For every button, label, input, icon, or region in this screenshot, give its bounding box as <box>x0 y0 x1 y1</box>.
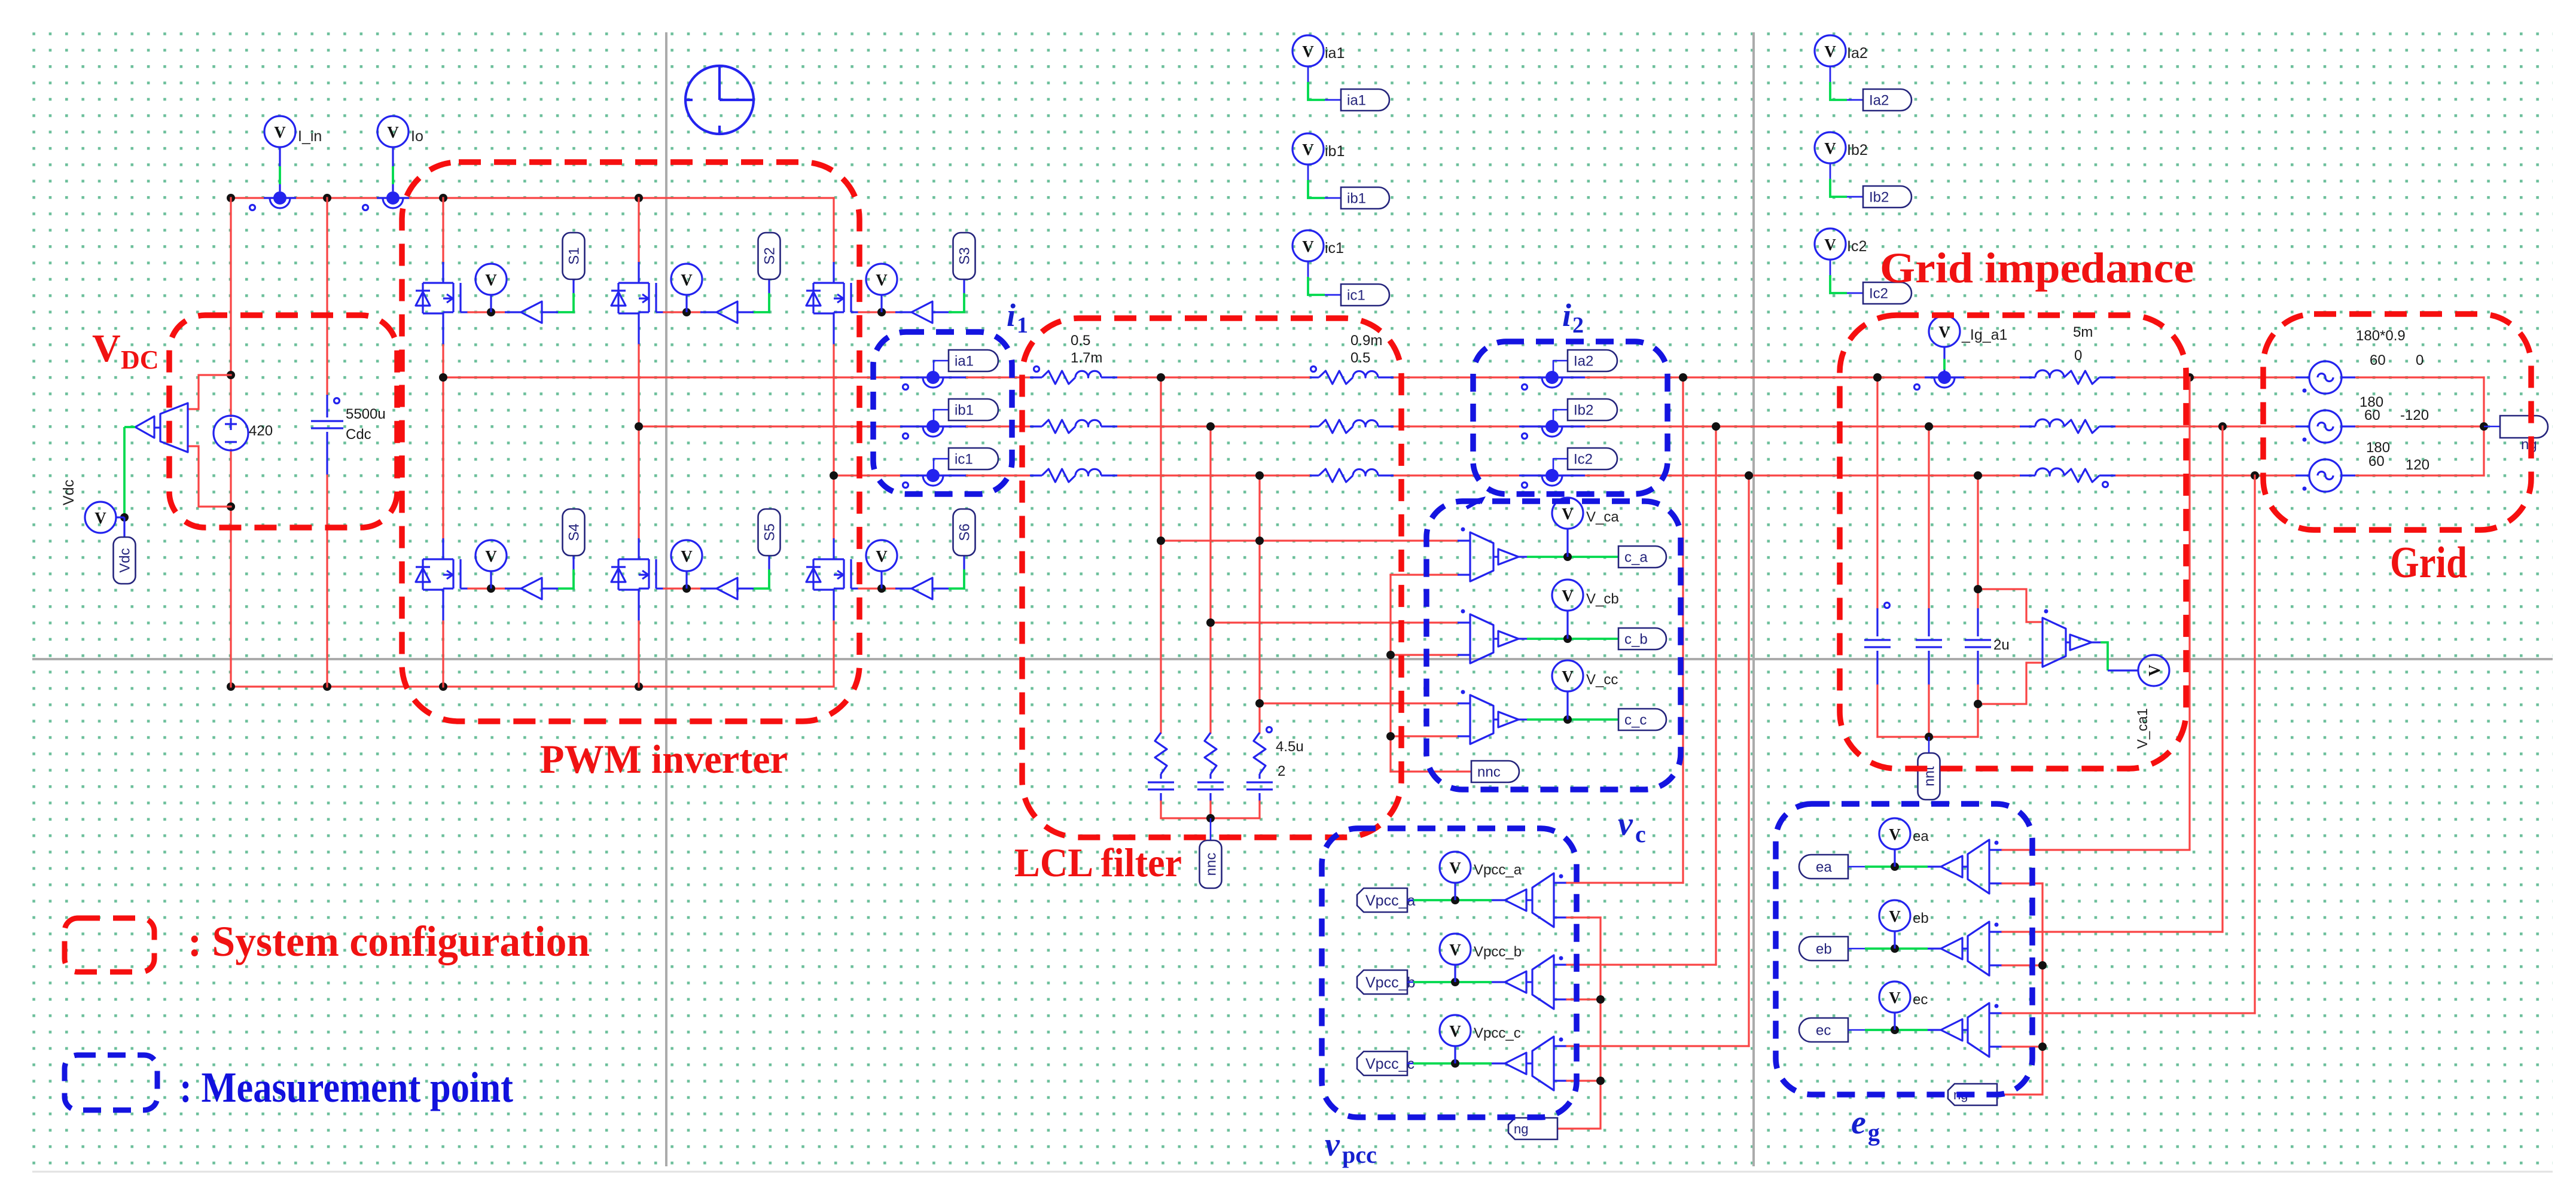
wire drop i2-a <box>1682 377 1684 883</box>
wire ea signal <box>1865 865 1928 868</box>
wire leg source <box>442 312 444 345</box>
svg-text:-120: -120 <box>2400 407 2429 423</box>
svg-text:V: V <box>2145 664 2163 676</box>
voltage source 420 <box>214 416 248 450</box>
buffer triangle ec <box>1928 1029 1941 1031</box>
svg-text:Ia2: Ia2 <box>1574 353 1593 370</box>
svg-text:V: V <box>876 547 888 565</box>
goto tag Ia2 <box>1863 89 1912 111</box>
svg-text:60: 60 <box>2364 407 2380 423</box>
probe V gate S2 <box>685 295 687 312</box>
node cap top <box>1974 471 1982 480</box>
wire v_c minus c <box>1391 735 1458 737</box>
svg-text:c_b: c_b <box>1624 632 1648 648</box>
probe V ib1 <box>1307 164 1309 180</box>
probe V V_ca <box>1566 529 1568 557</box>
wire Vpcc_a out+ <box>1554 882 1567 883</box>
buffer triangle V_cc <box>1498 712 1519 727</box>
buffer triangle Vdc <box>135 416 154 438</box>
wire v_c tap c <box>1260 702 1458 704</box>
wire leg drain <box>442 198 444 262</box>
wire ec out- <box>1989 1045 2002 1047</box>
goto tag Ib2 <box>1863 186 1912 208</box>
node nnc-c <box>1386 732 1395 740</box>
svg-text:Ic2: Ic2 <box>1574 452 1593 468</box>
wire v_c tap a <box>1161 539 1458 541</box>
svg-text:V_ca1: V_ca1 <box>2135 708 2151 749</box>
node tap c <box>1255 699 1264 708</box>
goto tag nnt <box>1928 737 1930 753</box>
probe V ia1 <box>1307 66 1309 82</box>
svg-text:5m: 5m <box>2073 324 2093 340</box>
svg-text:V: V <box>1302 237 1314 255</box>
wire Vpcc_b signal <box>1413 981 1492 983</box>
controlled source Vpcc_a <box>1526 899 1532 901</box>
goto tag Ib2 <box>1553 410 1568 423</box>
node Vpcc_a <box>1451 896 1459 904</box>
probe V gate S4 <box>490 572 492 589</box>
from tag eb <box>1799 937 1848 961</box>
node Vpcc_c <box>1451 1059 1459 1068</box>
svg-text:eb: eb <box>1816 941 1832 958</box>
goto tag ib1 <box>934 410 949 423</box>
goto tag nnc bottom <box>1210 818 1212 840</box>
buffer triangle gate S6 <box>911 578 932 599</box>
svg-text:Vpcc_c: Vpcc_c <box>1365 1056 1414 1072</box>
svg-text:Grid: Grid <box>2390 538 2467 587</box>
svg-text:v: v <box>1618 806 1633 843</box>
svg-text:V_ca: V_ca <box>1586 509 1619 525</box>
page boundary line horizontal <box>32 658 2553 660</box>
voltmeter V_ca <box>1470 532 1493 581</box>
node ea <box>1891 862 1899 871</box>
svg-text:ea: ea <box>1816 859 1832 876</box>
svg-text:V: V <box>94 509 106 527</box>
inductor L2 0.9m/0.5 <box>1310 474 1319 476</box>
wire nnc to tag <box>1391 770 1471 772</box>
wire leg drain <box>442 377 444 538</box>
wire drop i2-b <box>1715 426 1717 965</box>
svg-text:1: 1 <box>1017 313 1028 338</box>
clock symbol <box>685 66 754 134</box>
gate drive wire S4 <box>461 587 468 589</box>
svg-text:ib1: ib1 <box>1347 191 1366 207</box>
goto tag ib1 <box>1341 187 1389 209</box>
svg-text:v: v <box>1325 1126 1340 1163</box>
probe V eb <box>1894 931 1895 949</box>
wire V_cc signal <box>1527 718 1618 721</box>
box LCL filter <box>1022 318 1401 837</box>
transistor S2 MOSFET <box>639 282 649 284</box>
source AC grid B <box>2309 410 2342 443</box>
node nnc-b <box>1386 651 1395 659</box>
wire grid cap bottom bus <box>1877 736 1978 737</box>
goto tag c_a <box>1618 546 1666 568</box>
wire Vpcc_c out- <box>1554 1080 1567 1081</box>
node cap top <box>1873 373 1882 382</box>
wire DC+ top rail <box>231 197 834 199</box>
svg-text:ic1: ic1 <box>955 452 973 468</box>
node ec <box>1891 1026 1899 1034</box>
wire v_c minus a <box>1391 574 1458 575</box>
svg-text:ec: ec <box>1913 992 1928 1008</box>
buffer triangle gate S4 <box>521 578 542 599</box>
svg-text:V: V <box>1889 825 1901 843</box>
node vpcc ng c <box>1596 1077 1605 1085</box>
wire ec signal <box>1865 1029 1928 1031</box>
node cap top <box>1925 422 1933 431</box>
svg-text:V_cb: V_cb <box>1586 591 1619 607</box>
wire Vpcc_c signal <box>1413 1062 1492 1065</box>
voltmeter Vdc <box>160 403 188 452</box>
goto tag S5 <box>758 509 781 556</box>
svg-text:ng: ng <box>1514 1121 1528 1136</box>
svg-text:ib1: ib1 <box>1325 143 1345 160</box>
buffer triangle V_cb <box>1498 631 1519 647</box>
svg-text:Ib2: Ib2 <box>1574 403 1593 419</box>
wire gate signal S3 <box>949 293 964 312</box>
svg-text:V: V <box>1824 42 1836 60</box>
svg-text:nnc: nnc <box>1477 764 1501 781</box>
box v_c <box>1426 501 1681 790</box>
svg-text:V: V <box>1889 989 1901 1007</box>
page boundary line vertical 2 <box>1752 32 1755 1166</box>
goto tag ia1 <box>1341 89 1389 111</box>
controlled source Vpcc_c <box>1526 1062 1532 1064</box>
node shunt top <box>1206 422 1215 431</box>
svg-text:Vpcc_c: Vpcc_c <box>1474 1025 1521 1041</box>
wire v_c minus b <box>1391 654 1458 656</box>
diode antiparallel S4 <box>423 558 443 560</box>
svg-text:Vdc: Vdc <box>117 548 133 572</box>
wire grid cap drop <box>1928 426 1929 608</box>
node Vdc <box>120 513 129 522</box>
svg-text:c_c: c_c <box>1624 712 1647 728</box>
goto tag S6 <box>953 509 975 556</box>
from tag ng eg <box>1948 1084 1997 1105</box>
svg-text:V: V <box>1449 1022 1461 1040</box>
svg-text:4.5u: 4.5u <box>1276 739 1304 755</box>
node DC+ junctions <box>227 194 235 202</box>
node gate S5 <box>682 584 691 593</box>
controlled source ec <box>1962 1029 1968 1031</box>
svg-text:ec: ec <box>1816 1023 1831 1039</box>
wire leg drain <box>833 198 834 262</box>
node V_ca1 plus <box>1974 585 1982 593</box>
svg-text:0: 0 <box>2074 348 2082 364</box>
transistor S4 MOSFET <box>443 558 453 560</box>
wire gate signal S6 <box>949 569 964 589</box>
svg-text:Vdc: Vdc <box>60 480 77 505</box>
ammeter Ia2 <box>1519 376 1585 378</box>
svg-text:g: g <box>1868 1119 1880 1146</box>
svg-text:V: V <box>1302 42 1314 60</box>
wire drop grid-b <box>2221 426 2223 932</box>
wire Vpcc_a signal <box>1413 899 1492 901</box>
svg-text:V: V <box>681 547 693 565</box>
inductor L2 0.9m/0.5 <box>1310 376 1319 378</box>
wire LCL shunt drop <box>1209 426 1211 733</box>
wire to Vdc meter top <box>188 375 231 409</box>
gate drive wire S5 <box>656 587 664 589</box>
controlled source eb <box>1962 947 1968 949</box>
node i2-a <box>1679 373 1687 382</box>
source AC grid C <box>2309 459 2342 492</box>
wire gate signal S1 <box>558 293 574 312</box>
wire grid cap drop <box>1876 377 1878 608</box>
svg-text:V: V <box>1938 323 1950 341</box>
wire LCL shunt drop <box>1258 475 1260 733</box>
wire Vpcc_a out- <box>1554 916 1567 918</box>
svg-text:: System configuration: : System configuration <box>188 917 590 965</box>
probe V gate S5 <box>685 572 687 589</box>
svg-text:ic1: ic1 <box>1347 288 1365 304</box>
node V_ca1 minus <box>1974 700 1982 708</box>
probe V ea <box>1894 849 1895 867</box>
box Grid <box>2263 314 2531 530</box>
svg-text:Ib2: Ib2 <box>1847 142 1868 158</box>
box Grid impedance <box>1840 315 2186 769</box>
svg-text:e: e <box>1851 1104 1866 1141</box>
wire gate signal S4 <box>558 569 574 589</box>
svg-text:LCL filter: LCL filter <box>1014 840 1182 885</box>
svg-text:V: V <box>485 271 497 289</box>
svg-text:Vpcc_a: Vpcc_a <box>1474 862 1522 878</box>
wire eb out+ <box>1989 931 2002 932</box>
svg-text:V: V <box>876 271 888 289</box>
wire leg source <box>638 589 639 621</box>
goto tag Ia2 <box>1553 361 1568 374</box>
svg-text:V: V <box>1824 236 1836 254</box>
probe V Vpcc_a <box>1454 883 1456 900</box>
goto tag ic1 <box>934 459 949 472</box>
wire ec out+ <box>1989 1012 2002 1014</box>
wire ea out+ <box>1989 849 2002 851</box>
capacitor shunt 4.5u <box>1160 774 1162 779</box>
wire Vdc signal <box>124 426 135 428</box>
diode antiparallel S2 <box>618 282 639 284</box>
probe V ec <box>1894 1013 1895 1030</box>
wire drop grid-a <box>2188 377 2190 849</box>
transistor S3 MOSFET <box>834 282 844 284</box>
wire leg drain <box>638 426 639 538</box>
voltmeter V_cc <box>1470 695 1493 744</box>
node gate S4 <box>487 584 495 593</box>
node DC- junctions <box>227 682 235 691</box>
diode antiparallel S1 <box>423 282 443 284</box>
page boundary line vertical 1 <box>665 32 667 1166</box>
goto tag S2 <box>758 233 781 279</box>
wire leg source <box>442 589 444 621</box>
ammeter I_in <box>264 197 296 199</box>
node vpcc ng b <box>1596 995 1605 1004</box>
svg-text:PWM inverter: PWM inverter <box>540 736 788 782</box>
svg-text:1.7m: 1.7m <box>1071 350 1102 366</box>
svg-text:V: V <box>387 123 399 141</box>
svg-text:DC: DC <box>121 345 159 374</box>
wire to Vdc meter bottom <box>188 446 231 507</box>
node eg ng c <box>2038 1043 2047 1051</box>
label L1 values <box>1034 367 1039 372</box>
buffer triangle gate S5 <box>717 578 737 599</box>
svg-text:S2: S2 <box>762 247 778 264</box>
inductor Lg 5m/0 <box>2020 376 2035 378</box>
probe V Ig_a1 <box>1943 347 1945 359</box>
node gate S2 <box>682 308 691 316</box>
inductor L1 0.5/1.7m <box>1030 376 1042 378</box>
from tag ec <box>1799 1018 1848 1042</box>
box v_pcc <box>1322 828 1577 1117</box>
wire gate signal S2 <box>754 293 769 312</box>
voltmeter V_cb <box>1470 614 1493 663</box>
svg-text:60: 60 <box>2370 352 2386 368</box>
diode antiparallel S6 <box>813 558 834 560</box>
svg-text:ia1: ia1 <box>1325 45 1345 62</box>
node shunt top <box>1255 471 1264 480</box>
svg-text:Io: Io <box>411 128 423 145</box>
wire V_ca1 plus <box>1978 589 2042 622</box>
svg-text:420: 420 <box>249 423 273 439</box>
from tag Vpcc_b <box>1357 970 1407 994</box>
resistor shunt damping <box>1254 733 1266 774</box>
gate drive wire S1 <box>461 311 468 313</box>
svg-text:0: 0 <box>2416 352 2423 368</box>
ammeter Ic2 <box>1519 474 1585 476</box>
probe V Io <box>392 147 394 166</box>
wire eb out- <box>1989 964 2002 966</box>
node DC source top <box>227 371 235 379</box>
box VDC system <box>169 315 397 528</box>
wire grid neutral bus <box>2483 377 2484 475</box>
wire DC- bottom rail <box>231 685 834 687</box>
svg-text:: Measurement point: : Measurement point <box>179 1063 513 1111</box>
svg-text:V: V <box>1889 907 1901 925</box>
wire Vpcc_b out+ <box>1554 964 1567 965</box>
svg-text:c_a: c_a <box>1624 550 1648 566</box>
node eb <box>1891 944 1899 953</box>
svg-text:V: V <box>1824 139 1836 157</box>
wire leg drain <box>833 475 834 538</box>
buffer triangle V_ca <box>1498 549 1519 565</box>
inductor Lg 5m/0 <box>2020 425 2035 427</box>
svg-text:Vpcc_b: Vpcc_b <box>1474 944 1522 960</box>
svg-text:S3: S3 <box>957 247 973 264</box>
wire v_c tap b <box>1211 621 1458 623</box>
svg-text:nnc: nnc <box>1203 853 1220 876</box>
node V_cc <box>1563 715 1572 724</box>
probe V V_cc <box>1566 691 1568 720</box>
buffer triangle gate S2 <box>717 301 737 323</box>
svg-text:ib1: ib1 <box>955 403 974 419</box>
svg-text:S6: S6 <box>957 523 973 541</box>
goto tag nnc <box>1471 761 1519 782</box>
wire leg source <box>833 312 834 345</box>
capacitor grid 2u <box>1928 608 1929 636</box>
probe V gate S3 <box>880 295 882 312</box>
gate drive wire S3 <box>851 311 859 313</box>
buffer triangle ea <box>1928 865 1941 867</box>
canvas bottom edge <box>32 1171 2553 1173</box>
wire phase C <box>834 474 1030 476</box>
probe V V_ca1 <box>2138 655 2169 686</box>
inductor L1 0.5/1.7m <box>1030 425 1042 427</box>
goto tag ic1 <box>1341 284 1389 306</box>
capacitor shunt 4.5u <box>1258 774 1260 779</box>
inductor L2 0.9m/0.5 <box>1310 425 1319 427</box>
svg-text:60: 60 <box>2368 453 2385 470</box>
svg-text:0.9m: 0.9m <box>1351 333 1382 349</box>
svg-text:V: V <box>1449 859 1461 877</box>
node V_cb <box>1563 635 1572 643</box>
svg-text:Cdc: Cdc <box>346 426 371 443</box>
transistor S1 MOSFET <box>443 282 453 284</box>
wire Vpcc_c out+ <box>1554 1045 1567 1047</box>
wire nnc net vertical <box>1389 575 1391 772</box>
svg-text:S5: S5 <box>762 523 778 541</box>
svg-text:V: V <box>1562 505 1574 523</box>
node tap a <box>1157 537 1165 545</box>
wire eg ng rail <box>1998 883 2042 1095</box>
gate drive wire S6 <box>851 587 859 589</box>
buffer triangle gate S3 <box>911 301 932 323</box>
svg-text:2: 2 <box>1572 313 1584 338</box>
svg-text:120: 120 <box>2406 457 2429 473</box>
goto tag S4 <box>563 509 585 556</box>
resistor shunt damping <box>1155 733 1167 774</box>
from tag ea <box>1799 855 1848 879</box>
diode antiparallel S3 <box>813 282 834 284</box>
wire grid cap drop <box>1977 475 1979 608</box>
svg-text:2u: 2u <box>1993 637 2010 653</box>
box PWM inverter <box>402 162 859 721</box>
probe V Ic2 <box>1830 260 1831 275</box>
node i2-c <box>1745 471 1753 480</box>
svg-text:S4: S4 <box>566 523 583 541</box>
svg-text:ic1: ic1 <box>1325 240 1344 257</box>
node DC source bottom <box>227 502 235 511</box>
probe V gate S6 <box>880 572 882 589</box>
capacitor grid 2u <box>1977 608 1979 636</box>
wire vpcc ng rail <box>1557 917 1601 1129</box>
svg-text:0.5: 0.5 <box>1351 350 1370 366</box>
svg-text:V: V <box>274 123 286 141</box>
probe V ic1 <box>1307 261 1309 277</box>
capacitor shunt 4.5u <box>1209 774 1211 779</box>
wire shunt bottom bus <box>1161 817 1260 819</box>
goto tag S3 <box>953 233 975 279</box>
goto tag Ic2 <box>1863 282 1912 304</box>
svg-text:c: c <box>1635 821 1646 848</box>
probe V gate S1 <box>490 295 492 312</box>
node tap b <box>1206 618 1215 627</box>
svg-text:I_in: I_in <box>298 128 322 145</box>
legend red box <box>65 918 154 972</box>
svg-text:V: V <box>681 271 693 289</box>
annotation arrow v_c <box>1467 499 1481 508</box>
svg-text:ia1: ia1 <box>1347 93 1366 109</box>
svg-text:pcc: pcc <box>1342 1141 1377 1168</box>
wire drop i2-c <box>1748 475 1749 1046</box>
wire V_ca1 signal <box>2101 642 2108 670</box>
node grid taps <box>2185 373 2194 382</box>
probe V Vpcc_c <box>1454 1046 1456 1063</box>
svg-text:V: V <box>485 547 497 565</box>
goto tag Ic2 <box>1553 459 1568 472</box>
wire Vpcc_b out- <box>1554 998 1567 1000</box>
node grid neutral <box>2480 422 2488 431</box>
node gate S1 <box>487 308 495 316</box>
inductor Lg 5m/0 <box>2020 474 2035 476</box>
